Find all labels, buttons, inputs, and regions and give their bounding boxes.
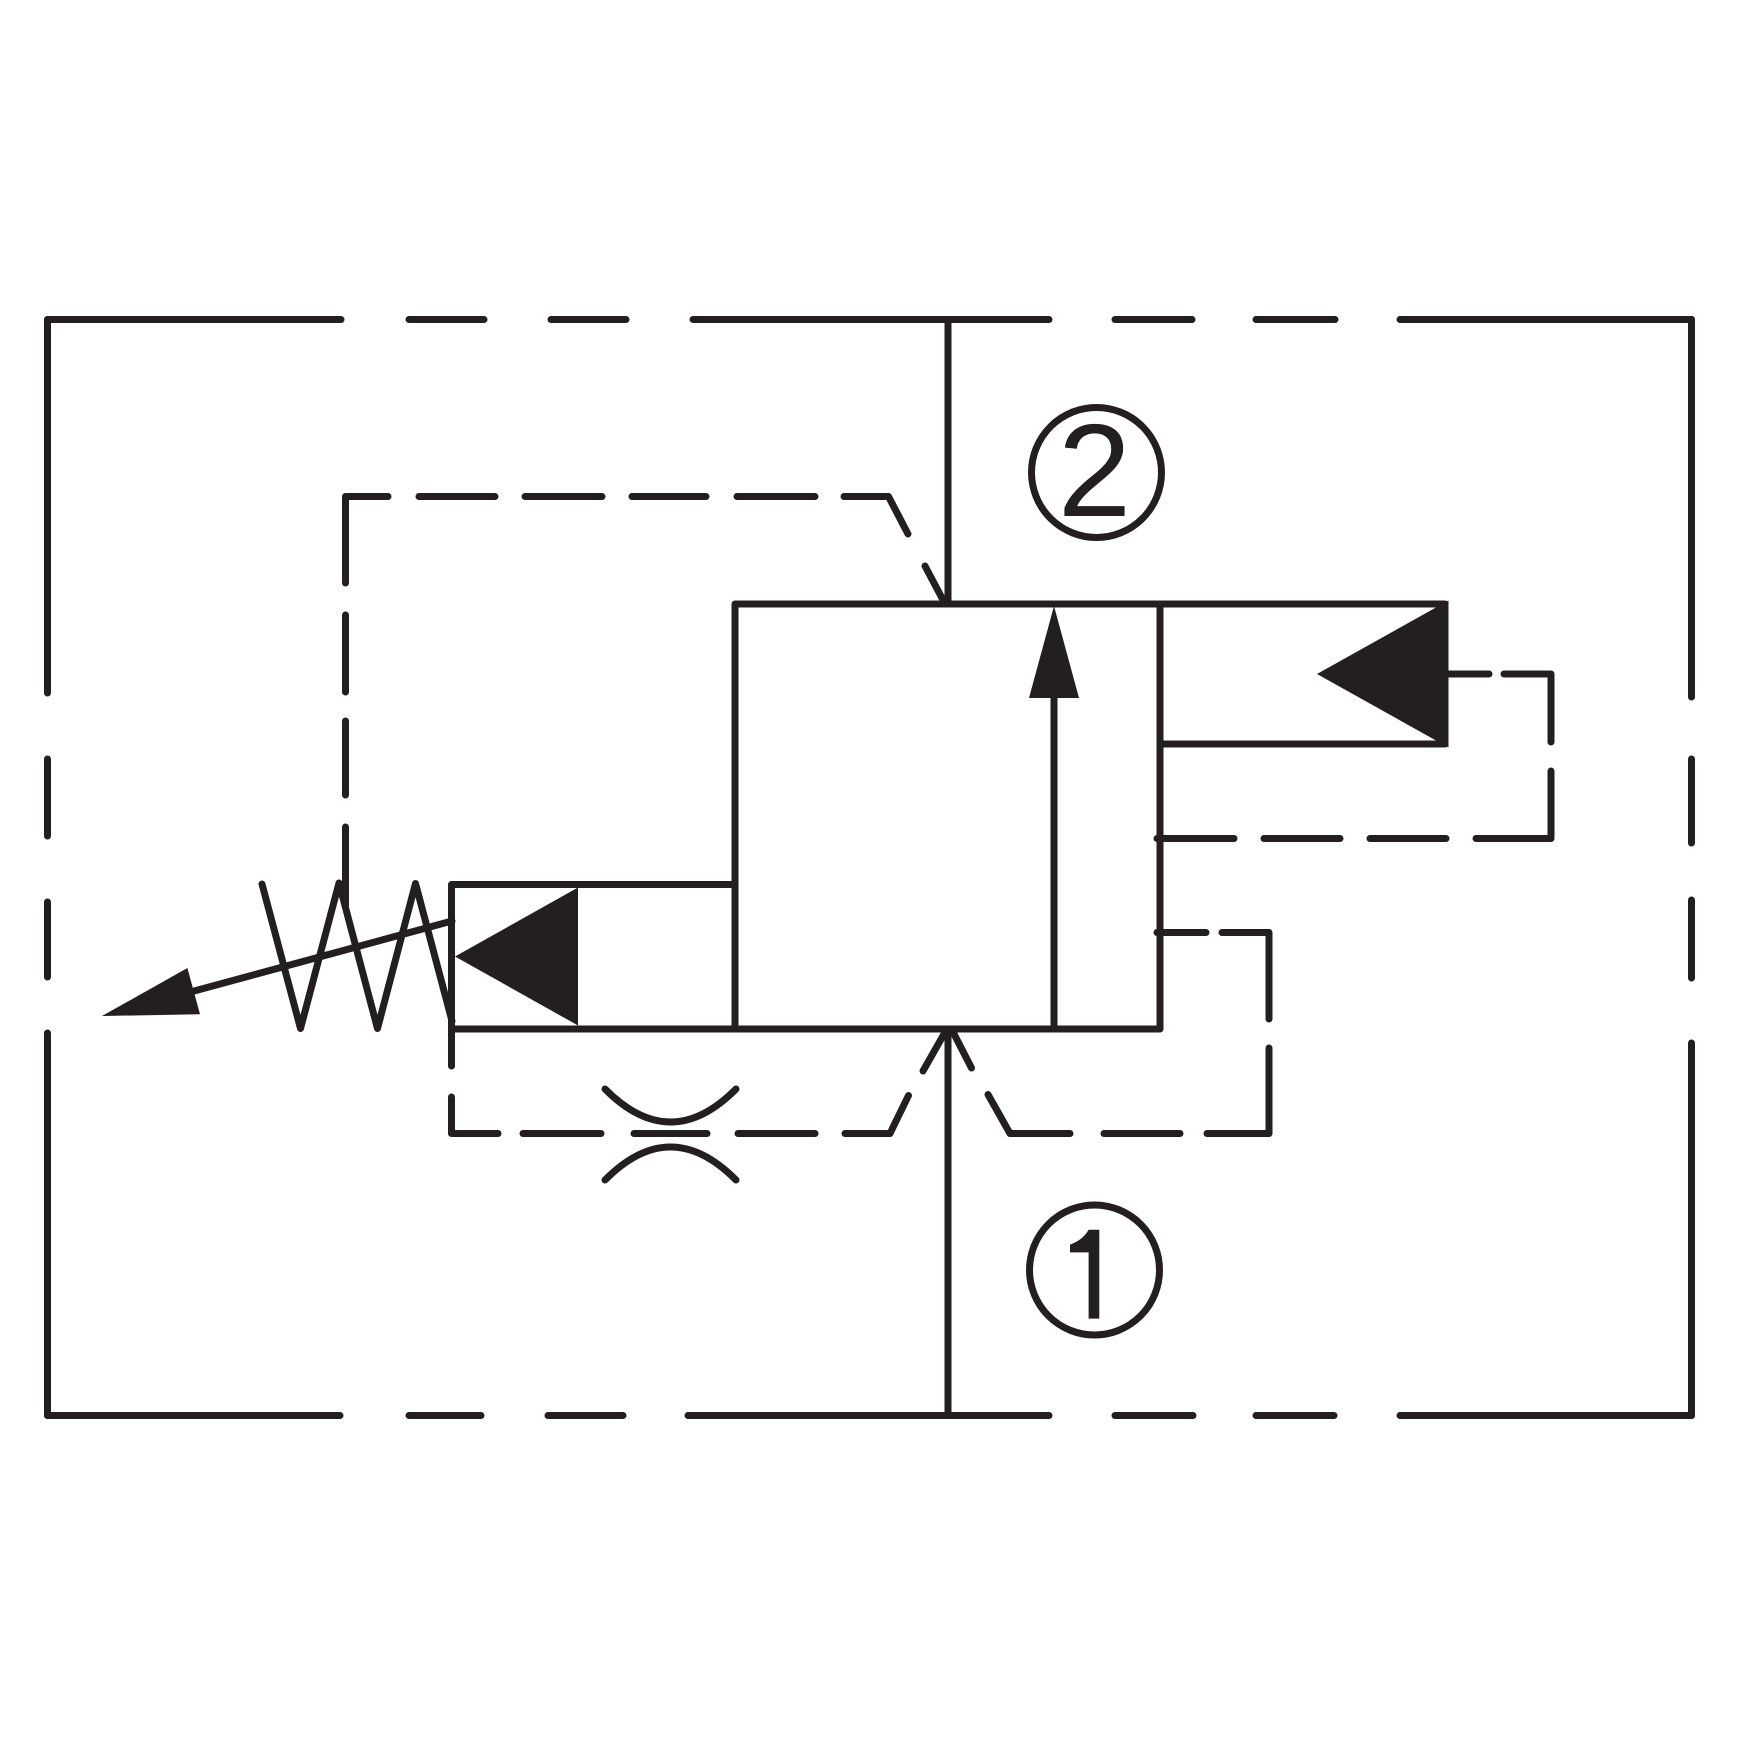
flow arrow head — [1029, 606, 1079, 698]
outer boundary left edge (dashed) — [44, 320, 51, 1416]
port 1 line (wire from valve bottom to bottom boundary) — [945, 1029, 952, 1416]
inlet chevron arrowhead at valve bottom — [923, 1031, 972, 1072]
port 1 label text 1 — [1070, 1230, 1099, 1319]
outer boundary right edge (dashed) — [1688, 320, 1695, 1416]
flow arrow shaft inside valve — [1051, 694, 1058, 1028]
outer boundary top edge (dashed) — [48, 316, 1692, 323]
pilot dashed bottom line dashes — [523, 1096, 909, 1134]
port 1 label circle — [1030, 1205, 1160, 1335]
drain pilot dashed loop to bottom line — [988, 933, 1269, 1134]
spring adjustment arrow line — [194, 921, 452, 991]
solenoid pilot dashed loop (right side) — [1157, 674, 1551, 839]
spring (zigzag) — [262, 883, 452, 1029]
solenoid pilot box (right) — [1160, 604, 1445, 744]
solenoid actuator triangle — [1317, 601, 1449, 748]
pilot stub below left actuator — [448, 1029, 455, 1066]
pilot dashed corner below left actuator — [452, 1097, 499, 1134]
drain pilot stub wire (right of valve) — [1157, 929, 1206, 936]
orifice restriction lower arc — [605, 1147, 736, 1180]
port 2 label circle — [1032, 408, 1162, 538]
pilot dashed line: top edge dashes — [419, 497, 943, 601]
main valve body box — [735, 604, 1160, 1029]
left actuator box — [452, 885, 736, 1030]
pilot dashed line: top horizontal run to spring side — [346, 497, 389, 906]
outer boundary bottom edge (dashed) — [48, 1412, 1692, 1419]
solenoid pilot stub wire — [1448, 671, 1489, 678]
spring adjustment arrow head — [102, 968, 200, 1016]
left actuator triangle — [455, 888, 578, 1026]
svg-text:2: 2 — [1058, 397, 1131, 544]
orifice restriction upper arc — [605, 1089, 736, 1122]
port 2 line (wire from top boundary to valve) — [945, 320, 952, 602]
